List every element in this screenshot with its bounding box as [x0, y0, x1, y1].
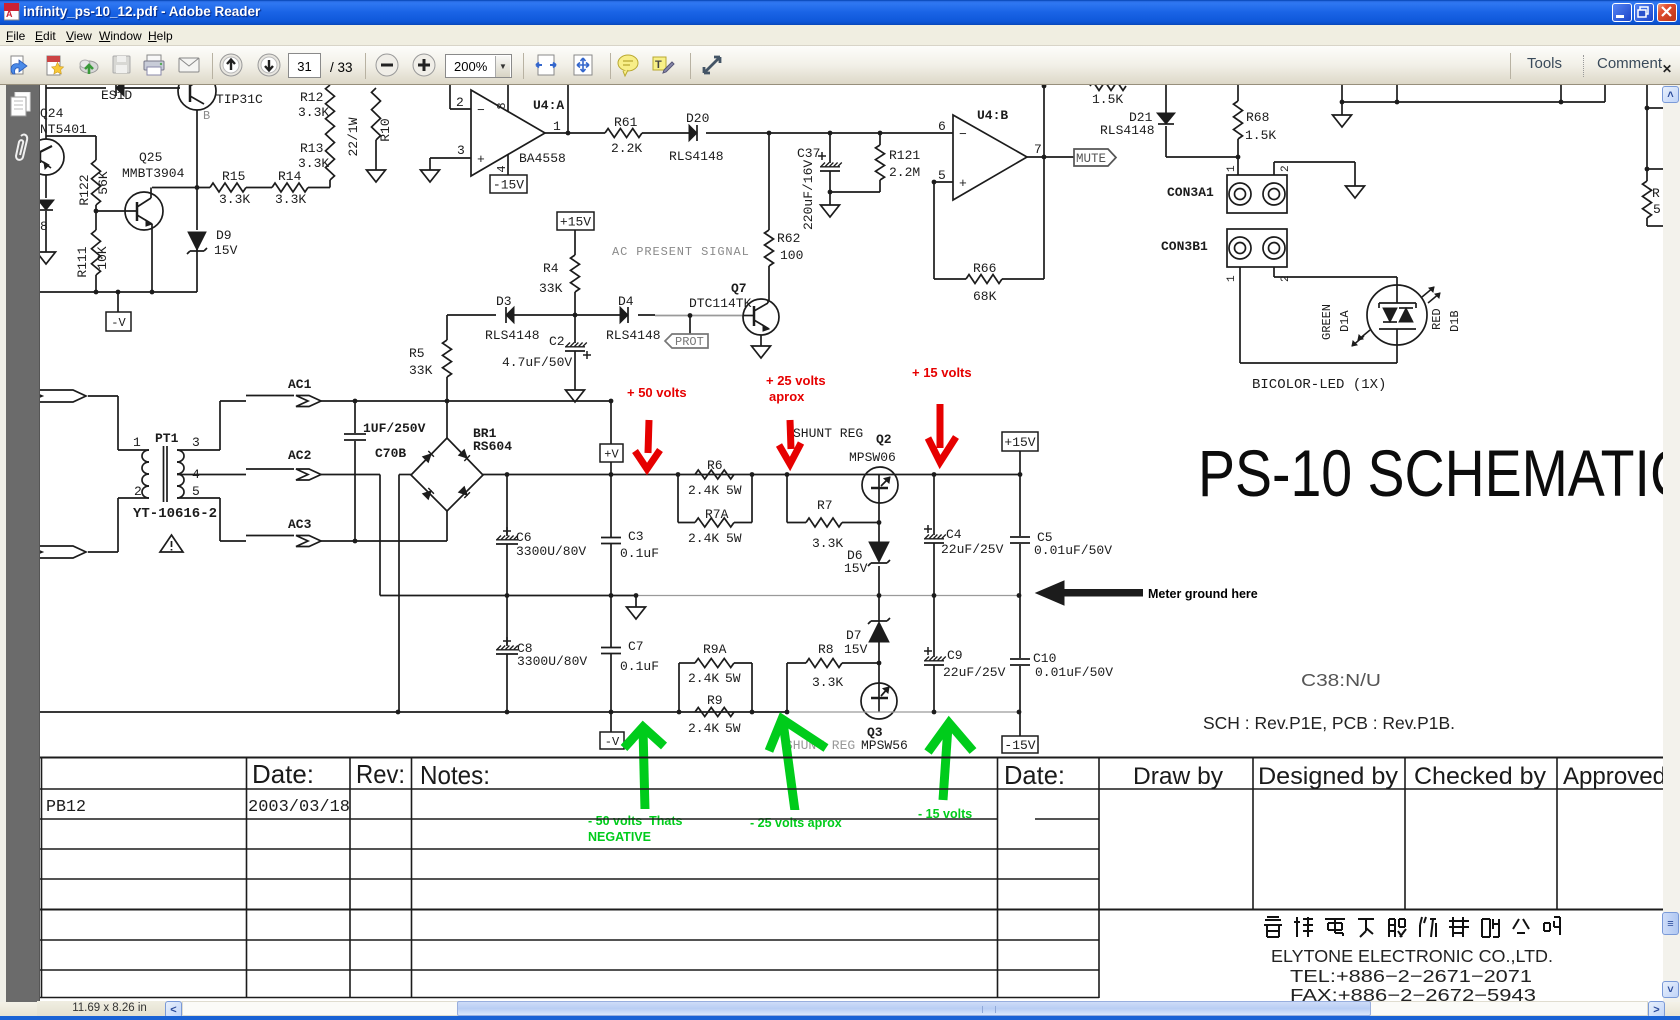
svg-text:R66: R66	[973, 261, 996, 276]
svg-text:Q24: Q24	[40, 106, 64, 121]
svg-text:4: 4	[495, 165, 509, 172]
svg-text:Date:: Date:	[1004, 760, 1065, 790]
svg-text:R121: R121	[889, 148, 920, 163]
svg-text:Q25: Q25	[139, 150, 162, 165]
svg-text:R10: R10	[378, 118, 393, 141]
svg-text:SHUNT REG: SHUNT REG	[793, 426, 863, 441]
svg-text:R122: R122	[77, 174, 92, 205]
svg-text:B: B	[203, 109, 210, 123]
svg-text:C70B: C70B	[375, 446, 406, 461]
svg-text:+V: +V	[604, 447, 619, 461]
svg-text:MPSW56: MPSW56	[861, 738, 908, 753]
svg-text:AC1: AC1	[288, 377, 312, 392]
svg-text:33K: 33K	[409, 363, 433, 378]
svg-text:CON3B1: CON3B1	[1161, 239, 1208, 254]
svg-text:RED: RED	[1430, 308, 1444, 330]
svg-text:3.3K: 3.3K	[298, 156, 329, 171]
svg-text:GREEN: GREEN	[1320, 304, 1334, 340]
svg-text:YT-10616-2: YT-10616-2	[133, 506, 217, 522]
svg-text:ES1D: ES1D	[101, 88, 132, 103]
svg-text:5W: 5W	[725, 721, 741, 736]
svg-text:D9: D9	[216, 228, 232, 243]
svg-text:C6: C6	[516, 530, 532, 545]
svg-text:22uF/25V: 22uF/25V	[943, 665, 1006, 680]
svg-text:1.5K: 1.5K	[1092, 92, 1123, 107]
svg-text:1: 1	[553, 119, 561, 134]
svg-text:C38:N/U: C38:N/U	[1301, 670, 1381, 690]
svg-text:C9: C9	[947, 648, 963, 663]
svg-text:3.3K: 3.3K	[219, 192, 250, 207]
svg-text:0.1uF: 0.1uF	[620, 546, 659, 561]
svg-text:2.4K: 2.4K	[688, 721, 719, 736]
svg-text:R5: R5	[409, 346, 425, 361]
svg-text:Rev:: Rev:	[356, 759, 405, 789]
svg-text:8: 8	[495, 102, 509, 109]
svg-text:D3: D3	[496, 294, 512, 309]
svg-text:R62: R62	[777, 231, 800, 246]
svg-text:15V: 15V	[844, 642, 868, 657]
svg-text:22/1W: 22/1W	[346, 117, 361, 156]
svg-text:C3: C3	[628, 529, 644, 544]
svg-text:CON3A1: CON3A1	[1167, 185, 1214, 200]
svg-text:C2: C2	[549, 334, 565, 349]
svg-text:D20: D20	[686, 111, 709, 126]
svg-text:−: −	[477, 103, 485, 118]
svg-text:U4:A: U4:A	[533, 98, 564, 113]
svg-text:R111: R111	[75, 246, 90, 277]
svg-text:-15V: -15V	[1004, 738, 1035, 753]
svg-text:RLS4148: RLS4148	[485, 328, 540, 343]
svg-text:R7A: R7A	[705, 507, 729, 522]
svg-text:FAX:+886−2−2672−5943: FAX:+886−2−2672−5943	[1290, 985, 1536, 1002]
svg-text:33K: 33K	[539, 281, 563, 296]
svg-text:15V: 15V	[214, 243, 238, 258]
svg-text:3: 3	[457, 143, 465, 158]
svg-text:0.01uF/50V: 0.01uF/50V	[1035, 665, 1113, 680]
svg-text:2.4K: 2.4K	[688, 483, 719, 498]
svg-text:2: 2	[134, 484, 142, 499]
svg-text:R68: R68	[1246, 110, 1269, 125]
svg-text:2.2M: 2.2M	[889, 165, 920, 180]
svg-text:R: R	[1652, 186, 1660, 201]
svg-text:R9A: R9A	[703, 642, 727, 657]
svg-text:+15V: +15V	[1004, 435, 1035, 450]
svg-text:SCH : Rev.P1E, PCB : Rev.P1B.: SCH : Rev.P1E, PCB : Rev.P1B.	[1203, 713, 1455, 733]
svg-text:10K: 10K	[95, 246, 110, 270]
svg-text:C10: C10	[1033, 651, 1056, 666]
svg-text:Notes:: Notes:	[420, 760, 490, 790]
svg-text:8: 8	[40, 219, 48, 234]
svg-text:BICOLOR-LED (1X): BICOLOR-LED (1X)	[1252, 377, 1386, 393]
svg-text:+ 25 volts: + 25 volts	[766, 373, 826, 388]
svg-text:22uF/25V: 22uF/25V	[941, 542, 1004, 557]
svg-text:R9: R9	[707, 693, 723, 708]
svg-text:+: +	[959, 176, 967, 191]
svg-text:U4:B: U4:B	[977, 108, 1008, 123]
svg-text:R13: R13	[300, 141, 323, 156]
svg-text:1UF/250V: 1UF/250V	[363, 421, 426, 436]
svg-text:NEGATIVE: NEGATIVE	[588, 830, 651, 844]
svg-text:-15V: -15V	[493, 178, 524, 193]
svg-text:−: −	[959, 127, 967, 142]
svg-text:AC PRESENT SIGNAL: AC PRESENT SIGNAL	[612, 245, 750, 259]
svg-text:7: 7	[1034, 142, 1042, 157]
svg-text:5: 5	[192, 484, 200, 499]
svg-text:Checked by: Checked by	[1414, 763, 1546, 790]
svg-text:3.3K: 3.3K	[812, 536, 843, 551]
svg-text:TIP31C: TIP31C	[216, 92, 263, 107]
svg-text:R8: R8	[818, 642, 834, 657]
svg-text:5W: 5W	[726, 483, 742, 498]
svg-text:PROT: PROT	[675, 335, 704, 349]
svg-text:D1A: D1A	[1338, 310, 1352, 332]
svg-text:68K: 68K	[973, 289, 997, 304]
svg-text:MPSW06: MPSW06	[849, 450, 896, 465]
svg-text:4.7uF/50V: 4.7uF/50V	[502, 355, 572, 370]
svg-text:+15V: +15V	[560, 215, 591, 230]
svg-text:Q2: Q2	[876, 432, 892, 447]
svg-text:Date:: Date:	[252, 759, 314, 789]
svg-text:5W: 5W	[726, 531, 742, 546]
svg-text:Q7: Q7	[731, 281, 747, 296]
svg-text:R6: R6	[707, 458, 723, 473]
svg-text:1: 1	[1226, 275, 1238, 282]
svg-text:NT5401: NT5401	[40, 122, 87, 137]
svg-text:2.2K: 2.2K	[611, 141, 642, 156]
svg-text:BA4558: BA4558	[519, 151, 566, 166]
svg-text:ELYTONE ELECTRONIC CO.,LTD.: ELYTONE ELECTRONIC CO.,LTD.	[1271, 946, 1553, 966]
svg-text:AC3: AC3	[288, 517, 312, 532]
svg-text:2.4K: 2.4K	[688, 671, 719, 686]
svg-text:3.3K: 3.3K	[812, 675, 843, 690]
svg-text:PT1: PT1	[155, 431, 179, 446]
svg-text:R15: R15	[222, 169, 245, 184]
svg-text:C4: C4	[946, 527, 962, 542]
svg-text:220uF/16V: 220uF/16V	[801, 160, 816, 230]
svg-text:A: A	[6, 9, 13, 19]
svg-text:R7: R7	[817, 498, 833, 513]
svg-text:3.3K: 3.3K	[275, 192, 306, 207]
svg-text:D4: D4	[618, 294, 634, 309]
svg-text:1: 1	[133, 435, 141, 450]
svg-text:PS-10 SCHEMATIC: PS-10 SCHEMATIC	[1198, 436, 1663, 510]
svg-text:+ 15 volts: + 15 volts	[912, 365, 972, 380]
svg-text:0.1uF: 0.1uF	[620, 659, 659, 674]
svg-text:RLS4148: RLS4148	[606, 328, 661, 343]
svg-text:+ 50 volts: + 50 volts	[627, 385, 687, 400]
svg-text:56K: 56K	[96, 171, 111, 195]
svg-text:3300U/80V: 3300U/80V	[516, 544, 586, 559]
svg-text:1.5K: 1.5K	[1245, 128, 1276, 143]
svg-text:0.01uF/50V: 0.01uF/50V	[1034, 543, 1112, 558]
svg-text:1: 1	[1226, 165, 1238, 172]
svg-text:aprox: aprox	[769, 389, 805, 404]
svg-text:3: 3	[192, 435, 200, 450]
svg-text:D7: D7	[846, 628, 862, 643]
svg-text:C7: C7	[628, 639, 644, 654]
svg-text:RLS4148: RLS4148	[669, 149, 724, 164]
svg-text:MMBT3904: MMBT3904	[122, 166, 185, 181]
svg-text:- 50 volts Thats: - 50 volts Thats	[588, 814, 683, 828]
svg-text:2.4K: 2.4K	[688, 531, 719, 546]
svg-text:AC2: AC2	[288, 448, 312, 463]
svg-text:Designed by: Designed by	[1258, 763, 1398, 790]
svg-text:- 25 volts aprox: - 25 volts aprox	[750, 816, 842, 830]
svg-text:RLS4148: RLS4148	[1100, 123, 1155, 138]
svg-text:R61: R61	[614, 115, 638, 130]
svg-text:R12: R12	[300, 90, 323, 105]
svg-text:5W: 5W	[725, 671, 741, 686]
svg-text:2: 2	[456, 95, 464, 110]
svg-text:5: 5	[1653, 202, 1661, 217]
svg-text:TEL:+886−2−2671−2071: TEL:+886−2−2671−2071	[1290, 966, 1532, 986]
svg-text:2: 2	[1280, 165, 1292, 172]
svg-text:DTC114TK: DTC114TK	[689, 296, 752, 311]
svg-text:MUTE: MUTE	[1076, 152, 1106, 166]
svg-text:Approved: Approved	[1563, 763, 1663, 790]
svg-text:2003/03/18: 2003/03/18	[248, 797, 350, 816]
svg-text:3300U/80V: 3300U/80V	[517, 654, 587, 669]
svg-text:3.3K: 3.3K	[298, 105, 329, 120]
svg-text:Meter ground here: Meter ground here	[1148, 587, 1258, 601]
svg-text:15V: 15V	[844, 561, 868, 576]
svg-text:C37: C37	[797, 146, 820, 161]
svg-text:5: 5	[938, 168, 946, 183]
svg-text:T: T	[655, 59, 662, 71]
svg-text:PB12: PB12	[46, 797, 86, 816]
svg-text:R14: R14	[278, 169, 302, 184]
svg-text:R4: R4	[543, 261, 559, 276]
svg-text:+: +	[477, 152, 485, 167]
svg-text:D1B: D1B	[1448, 310, 1462, 332]
svg-text:-V: -V	[605, 735, 620, 749]
svg-text:6: 6	[938, 119, 946, 134]
svg-text:-V: -V	[111, 316, 126, 330]
svg-text:100: 100	[780, 248, 803, 263]
svg-text:Draw by: Draw by	[1133, 763, 1223, 790]
svg-text:RS604: RS604	[473, 439, 512, 454]
